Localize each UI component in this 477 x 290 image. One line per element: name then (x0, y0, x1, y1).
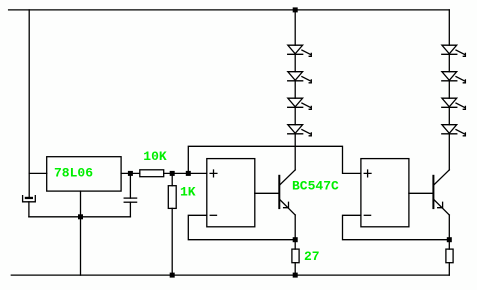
wire: LED chain 1 top feed (294, 10, 296, 45)
wire: R2 top lead (171, 173, 173, 185)
capacitor C2 (124, 198, 136, 202)
wire (294, 107, 296, 124)
wire: +V top rail (9, 9, 450, 11)
svg-text:1K: 1K (180, 185, 196, 200)
node: R2 to ground rail (170, 273, 175, 278)
svg-text:27: 27 (304, 249, 320, 264)
wire (448, 54, 450, 71)
wire: R3 bottom lead (294, 263, 296, 275)
wire (294, 54, 296, 71)
wire: R1 to op-amp U2 + input (164, 172, 207, 174)
wire: feed to op-amp U3 + input (top loop) (188, 146, 361, 173)
LED D6 (442, 72, 466, 83)
wire: Q2 collector vertical (448, 134, 450, 170)
wire: U3 feedback (- input to Q2 emitter) (343, 215, 450, 239)
voltage regulator U1 78L06 (47, 157, 121, 191)
wire: C2 top lead (129, 173, 131, 198)
transistor Q2 (433, 170, 449, 215)
node: divider node (170, 171, 175, 176)
node: C2 tap (128, 171, 133, 176)
node: ground pin / return junction (78, 214, 83, 219)
wire (294, 81, 296, 98)
wire: R4 bottom lead (448, 263, 450, 275)
wire: regulator output (121, 172, 140, 174)
LED D5 (442, 45, 466, 56)
transistor Q1 BC547C (279, 170, 295, 215)
LED D7 (442, 98, 466, 109)
LED D8 (442, 125, 466, 136)
op-amp U3 (361, 159, 409, 227)
node: Q1 emitter / feedback / R3 (293, 237, 298, 242)
resistor R3 27 (292, 249, 299, 263)
wire: Q1 collector vertical (294, 134, 296, 170)
resistor R4 (446, 249, 453, 263)
wire: R3 top lead (294, 240, 296, 249)
wire: C1 bottom lead (28, 202, 30, 217)
wire (448, 81, 450, 98)
svg-text:BC547C: BC547C (292, 178, 339, 193)
wire: regulator input (29, 172, 47, 174)
wire: U2 feedback (- input to Q1 emitter) (188, 215, 295, 239)
svg-text:10K: 10K (143, 149, 167, 164)
wire: U3 output to Q2 base (409, 192, 433, 194)
LED D4 (288, 125, 312, 136)
wire: ground bottom rail (11, 274, 449, 276)
wire (448, 107, 450, 124)
svg-text:78L06: 78L06 (54, 166, 93, 181)
node: Q2 emitter / feedback / R4 (447, 237, 452, 242)
node: R3 to ground rail (293, 273, 298, 278)
wire: LED chain 2 top feed (448, 10, 450, 45)
node: top rail / LED chain 1 junction (293, 7, 298, 12)
wire: ground return horizontal (29, 216, 130, 218)
wire: R4 top lead (448, 240, 450, 249)
op-amp U2 (207, 159, 255, 227)
resistor R1 10K (140, 170, 164, 177)
LED D3 (288, 98, 312, 109)
wire: Q2 emitter vertical (448, 215, 450, 240)
resistor R2 1K (168, 186, 176, 209)
LED D2 (288, 72, 312, 83)
node: op-amp feed tap (186, 171, 191, 176)
wire: C2 bottom lead (129, 202, 131, 217)
wire: U2 output to Q1 base (255, 192, 278, 194)
wire: left supply vertical (28, 10, 30, 197)
wire: regulator ground pin (80, 191, 82, 275)
wire: R2 bottom lead (171, 208, 173, 275)
LED D1 (288, 45, 312, 56)
capacitor C1 (polarized) (23, 196, 36, 202)
wire: Q1 emitter vertical (294, 215, 296, 240)
